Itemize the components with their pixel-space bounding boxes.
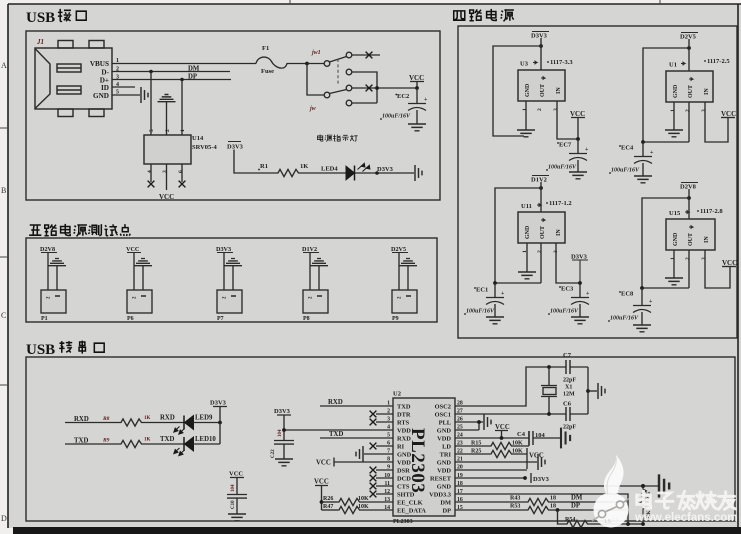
pin name labels (90, 60, 110, 100)
svg-text:VDD: VDD (437, 468, 451, 475)
sideways ground right end (415, 165, 422, 181)
svg-text:RI: RI (397, 444, 405, 451)
four-way power box (458, 26, 737, 338)
wire loop out-gnd (493, 38, 541, 136)
svg-text:LED4: LED4 (321, 166, 338, 173)
svg-text:12M: 12M (563, 392, 575, 398)
no-connect X upper (366, 52, 373, 59)
GND pin stem + ground (673, 102, 675, 130)
svg-text:VCC: VCC (570, 110, 585, 118)
svg-text:OUT: OUT (688, 233, 694, 246)
svg-text:VDD: VDD (397, 428, 411, 435)
svg-text:VCC: VCC (159, 193, 174, 201)
svg-text:U1: U1 (669, 62, 677, 69)
svg-text:EC1: EC1 (476, 287, 488, 294)
zone letters and ticks (1, 61, 7, 523)
svg-text:SHTD: SHTD (397, 492, 415, 499)
svg-text:104: 104 (231, 484, 236, 492)
title: 五路电源测试点 (29, 224, 130, 236)
svg-text:2: 2 (685, 257, 691, 260)
svg-text:R43: R43 (510, 496, 520, 502)
svg-text:OUT: OUT (540, 226, 546, 239)
junction node on D- (149, 70, 153, 74)
svg-text:IN: IN (704, 236, 710, 243)
svg-text:DM: DM (571, 495, 583, 502)
node D3V3 output (539, 44, 543, 48)
earth ground above U14 pin2 (158, 95, 176, 102)
left pin names (397, 404, 426, 515)
svg-text:DP: DP (571, 503, 580, 510)
svg-text:GND: GND (93, 92, 109, 100)
svg-text:R1: R1 (260, 163, 268, 170)
ground at pin5 (sideways) (141, 87, 148, 103)
five-way test point box (26, 238, 437, 322)
chip right-side connections (455, 352, 669, 528)
svg-text:C22: C22 (271, 449, 276, 458)
svg-text:1K: 1K (144, 438, 151, 443)
svg-text:R8: R8 (102, 416, 110, 422)
regulator U3 1117-3.3 (493, 32, 589, 179)
svg-text:VCC: VCC (409, 74, 424, 82)
svg-text:DP: DP (188, 74, 197, 81)
ground under EC2 (408, 124, 426, 131)
svg-text:D2V5: D2V5 (680, 34, 697, 41)
VCC / C10 decoupling stack (227, 471, 247, 521)
svg-text:D3V3: D3V3 (227, 144, 244, 151)
svg-text:3: 3 (162, 170, 168, 173)
svg-text:GND: GND (673, 84, 679, 98)
svg-text:D2V5: D2V5 (391, 246, 406, 253)
svg-text:D3V3: D3V3 (531, 33, 548, 40)
wire drops to U14 (151, 72, 182, 136)
svg-text:jw1: jw1 (311, 50, 321, 56)
svg-text:+: + (586, 291, 590, 297)
svg-text:U15: U15 (669, 210, 681, 217)
junction node after fuse (305, 62, 309, 66)
pin7 GND sideways ground (364, 453, 393, 455)
svg-text:100uF/16V: 100uF/16V (382, 114, 411, 120)
pin19 RESET to D3V3 (455, 477, 525, 479)
svg-text:18: 18 (550, 496, 556, 502)
test point P7 (216, 246, 242, 322)
svg-text:D-: D- (101, 68, 109, 76)
svg-text:DM: DM (188, 66, 200, 73)
svg-text:IN: IN (704, 88, 710, 95)
wire loop to out (643, 39, 689, 142)
title: USB接口 (26, 9, 86, 26)
svg-text:3: 3 (553, 108, 559, 111)
svg-text:RXD: RXD (328, 399, 343, 406)
crystal circuit: pin28 OSC2 riser (455, 367, 566, 406)
svg-text:TXD: TXD (160, 436, 174, 443)
svg-text:DSR: DSR (397, 468, 410, 475)
svg-text:U3: U3 (520, 61, 529, 68)
wire GND pin5 (112, 94, 140, 96)
svg-text:IN: IN (556, 87, 562, 94)
svg-text:D3V3: D3V3 (216, 246, 231, 253)
svg-text:LED9: LED9 (195, 415, 213, 422)
svg-text:TXD: TXD (329, 431, 343, 438)
svg-text:Fuse: Fuse (261, 68, 274, 75)
pin6 no-connect (376, 445, 393, 447)
svg-text:OUT: OUT (540, 84, 546, 97)
svg-text:VCC: VCC (126, 246, 139, 253)
svg-text:+: + (501, 291, 505, 297)
svg-text:D2V8: D2V8 (40, 246, 55, 253)
svg-text:EC4: EC4 (621, 145, 634, 152)
svg-text:GND: GND (673, 232, 679, 246)
svg-text:TRI: TRI (440, 452, 452, 459)
svg-text:DM: DM (440, 500, 451, 507)
connector J1 (35, 41, 112, 117)
svg-text:jw: jw (309, 106, 317, 112)
svg-text:2: 2 (685, 109, 691, 112)
wire VBUS pin1 (112, 64, 256, 96)
U14 top pin numbers (149, 129, 186, 132)
svg-text:X1: X1 (565, 385, 572, 391)
svg-text:1: 1 (180, 129, 186, 132)
pin21 GND (455, 461, 537, 463)
svg-text:6: 6 (178, 170, 184, 173)
svg-text:GND: GND (397, 452, 412, 459)
svg-text:100uF/16V: 100uF/16V (550, 309, 579, 315)
svg-text:U14: U14 (192, 135, 204, 142)
title: USB转串口 (26, 341, 104, 358)
svg-text:OSC1: OSC1 (435, 412, 451, 419)
svg-text:B: B (1, 186, 6, 195)
svg-text:100uF/16V: 100uF/16V (548, 165, 577, 171)
svg-text:IN: IN (556, 229, 562, 236)
svg-text:VDD: VDD (437, 436, 451, 443)
svg-text:LD: LD (442, 444, 451, 451)
GND pin stem + ground (526, 243, 528, 272)
USB section box (26, 31, 440, 200)
svg-text:LED10: LED10 (195, 436, 216, 443)
test point P1 (40, 246, 66, 322)
svg-text:2: 2 (165, 129, 171, 132)
svg-text:DP: DP (442, 508, 451, 515)
svg-text:1K: 1K (300, 163, 308, 170)
svg-text:P9: P9 (392, 316, 399, 322)
svg-text:C: C (1, 311, 6, 320)
svg-text:1117-3.3: 1117-3.3 (550, 59, 573, 66)
GND pin stem + ground (525, 101, 527, 130)
svg-text:EC2: EC2 (397, 93, 409, 100)
svg-text:RTS: RTS (397, 420, 410, 427)
U14 bottom pins (151, 164, 182, 190)
svg-text:C4: C4 (517, 431, 526, 438)
svg-text:PLL: PLL (439, 420, 451, 427)
GND pin stem + ground (673, 250, 675, 278)
svg-text:F1: F1 (262, 45, 269, 52)
svg-text:VCC: VCC (722, 259, 737, 267)
regulator U1 1117-2.5 (609, 33, 736, 183)
left pin numbers (384, 401, 390, 512)
svg-text:ID: ID (101, 84, 109, 92)
svg-text:10K: 10K (358, 496, 369, 502)
svg-text:1K: 1K (144, 416, 151, 421)
svg-text:22pF: 22pF (563, 425, 576, 431)
resistor R54 (556, 508, 560, 512)
svg-text:CTS: CTS (397, 484, 410, 491)
svg-text:GND: GND (437, 484, 452, 491)
svg-text:TXD: TXD (397, 404, 411, 411)
svg-text:5: 5 (149, 129, 155, 132)
svg-text:J1: J1 (36, 38, 44, 46)
svg-text:3: 3 (701, 109, 707, 112)
svg-text:VDD3.3: VDD3.3 (429, 492, 451, 499)
svg-text:VCC: VCC (314, 479, 329, 486)
wire ID stub (112, 86, 135, 88)
pin20 VDD to VCC bar (455, 469, 527, 471)
svg-text:18: 18 (550, 504, 556, 510)
regulator body U11 (518, 212, 565, 243)
svg-text:1117-2.5: 1117-2.5 (707, 58, 730, 65)
title: 四路电源 (454, 9, 514, 21)
regulator body U15 (666, 219, 715, 250)
svg-text:100uF/16V: 100uF/16V (610, 316, 639, 322)
dashed gang link (337, 59, 339, 86)
pin texts rotated (525, 83, 562, 97)
svg-text:RESET: RESET (430, 476, 452, 483)
svg-text:D1V2: D1V2 (531, 177, 547, 184)
pin17 VDD3.3 long rail, loops down (455, 494, 643, 524)
svg-text:RXD: RXD (160, 415, 175, 422)
svg-text:D3V3: D3V3 (533, 476, 550, 483)
fuse F1 Fuse (256, 57, 307, 68)
junction node on D+ (180, 78, 184, 82)
resistor R8 1K (119, 419, 143, 426)
svg-text:2: 2 (537, 108, 543, 111)
svg-text:+: + (650, 150, 654, 156)
svg-text:U11: U11 (521, 203, 532, 210)
no-connects on U14 pins 4,6 (148, 181, 186, 188)
svg-text:1.5: 1.5 (604, 519, 611, 525)
TXD led row (65, 436, 220, 456)
svg-text:R9: R9 (102, 438, 110, 444)
pin2,3 no-connect (376, 414, 393, 422)
svg-text:DTR: DTR (397, 412, 411, 419)
svg-text:GND: GND (525, 83, 531, 97)
svg-text:USB: USB (26, 10, 55, 26)
svg-text:EC3: EC3 (561, 286, 574, 293)
svg-text:R47: R47 (323, 504, 333, 510)
svg-text:+: + (585, 147, 589, 153)
svg-text:100uF/16V: 100uF/16V (611, 168, 640, 174)
wire from D3V3 down and right (234, 150, 276, 174)
svg-text:D3V3: D3V3 (377, 166, 394, 173)
svg-text:R26: R26 (323, 496, 333, 502)
svg-text:RXD: RXD (397, 436, 411, 443)
svg-text:U2: U2 (393, 391, 401, 398)
svg-text:D: D (1, 514, 7, 523)
U14 bottom pin numbers (147, 170, 184, 173)
label: 电源指示灯 (317, 134, 357, 141)
svg-text:3: 3 (701, 257, 707, 260)
IN pin stem to EC7 node (557, 101, 578, 139)
svg-text:VBUS: VBUS (90, 60, 109, 68)
svg-text:4: 4 (147, 170, 153, 173)
test point P9 (391, 246, 417, 322)
chip left-side connections (282, 399, 393, 514)
PL2303 chip U2 (384, 391, 463, 526)
pin8 VDD to VCC (334, 458, 393, 467)
svg-text:VCC: VCC (229, 471, 243, 478)
IN pin loop to VCC (705, 250, 730, 288)
regulator U15 1117-2.8 (608, 183, 737, 332)
svg-text:EC8: EC8 (621, 291, 634, 298)
svg-text:C7: C7 (563, 352, 572, 359)
pin4 VDD to D3V3 (284, 429, 393, 431)
test point P6 (126, 246, 152, 322)
bottom black bar (13, 527, 741, 534)
svg-text:VCC: VCC (316, 460, 331, 467)
svg-text:2: 2 (537, 250, 543, 253)
svg-text:P8: P8 (303, 316, 310, 322)
D3V3 / C22 stack near chip (271, 408, 294, 466)
svg-text:D3V3: D3V3 (210, 400, 227, 407)
IN pin loop to VCC (705, 102, 728, 142)
resistor R55 10K vertical (640, 486, 647, 524)
test point P8 (302, 246, 328, 322)
svg-text:VDD: VDD (397, 460, 411, 467)
svg-text:D2V8: D2V8 (680, 184, 697, 191)
svg-text:1: 1 (522, 108, 528, 111)
svg-text:C10: C10 (231, 500, 236, 509)
svg-text:1117-1.2: 1117-1.2 (549, 200, 572, 207)
svg-text:D3V3: D3V3 (274, 408, 291, 415)
wire D- / DM (112, 71, 230, 73)
pin24 VDD wire with C4 (455, 437, 529, 439)
svg-text:1117-2.8: 1117-2.8 (700, 208, 723, 215)
svg-text:SRV05-4: SRV05-4 (192, 144, 217, 151)
svg-text:+: + (424, 97, 428, 103)
right pin numbers (457, 401, 463, 512)
pin18 GND long rail (455, 485, 658, 487)
usb-serial box (26, 357, 735, 521)
pin27 OSC1 wire (455, 413, 566, 415)
svg-text:1: 1 (670, 257, 676, 260)
crystal ground branch (586, 389, 590, 393)
svg-text:PL2303: PL2303 (393, 519, 413, 525)
svg-text:VCC: VCC (721, 110, 736, 118)
LED LED10 (174, 437, 194, 456)
svg-text:+: + (649, 299, 653, 305)
pin26 PLL + pin25 GND tied to ground (455, 422, 483, 430)
right pin names (429, 404, 452, 515)
svg-text:USB: USB (26, 342, 55, 358)
svg-text:EE_CLK: EE_CLK (397, 500, 423, 507)
regulator body U1 (666, 71, 713, 102)
svg-text:22pF: 22pF (563, 378, 576, 384)
svg-text:P1: P1 (41, 316, 48, 322)
svg-text:GND: GND (525, 225, 531, 239)
regulator body U3 (518, 70, 565, 101)
pins 9-12 no-connect (376, 470, 393, 494)
IN pin to D3V3/EC3 node (556, 243, 580, 283)
svg-text:D1V2: D1V2 (302, 246, 317, 253)
svg-text:OSC2: OSC2 (435, 404, 451, 411)
wire D+ / DP (112, 79, 231, 81)
svg-text:A: A (1, 61, 7, 70)
svg-text:EC7: EC7 (559, 142, 572, 149)
svg-text:10K: 10K (358, 504, 369, 510)
svg-text:EE_DATA: EE_DATA (397, 508, 426, 515)
watermark text 电子发烧友 (637, 491, 736, 509)
pin numbers (116, 58, 119, 96)
svg-text:R53: R53 (510, 504, 520, 510)
pin numbers (522, 108, 559, 111)
svg-text:C6: C6 (563, 401, 572, 408)
svg-text:P7: P7 (217, 316, 224, 322)
svg-text:100uF/16V: 100uF/16V (466, 309, 495, 315)
middle jumper poles (346, 69, 417, 106)
svg-text:GND: GND (437, 460, 452, 467)
no-connect X lower (366, 85, 373, 92)
svg-text:www.elecfans.com: www.elecfans.com (634, 512, 737, 524)
wire RXD (65, 422, 119, 424)
svg-text:1: 1 (670, 109, 676, 112)
svg-text:DCD: DCD (397, 476, 411, 483)
svg-text:GND: GND (437, 428, 452, 435)
svg-text:OUT: OUT (688, 85, 694, 98)
U14 SRV05-4 (144, 135, 191, 164)
LED LED9 (174, 416, 194, 435)
logo flame + circle (604, 455, 624, 495)
regulator U11 1117-1.2 (464, 176, 590, 324)
svg-text:P6: P6 (127, 316, 134, 322)
RXD led row (65, 415, 222, 435)
